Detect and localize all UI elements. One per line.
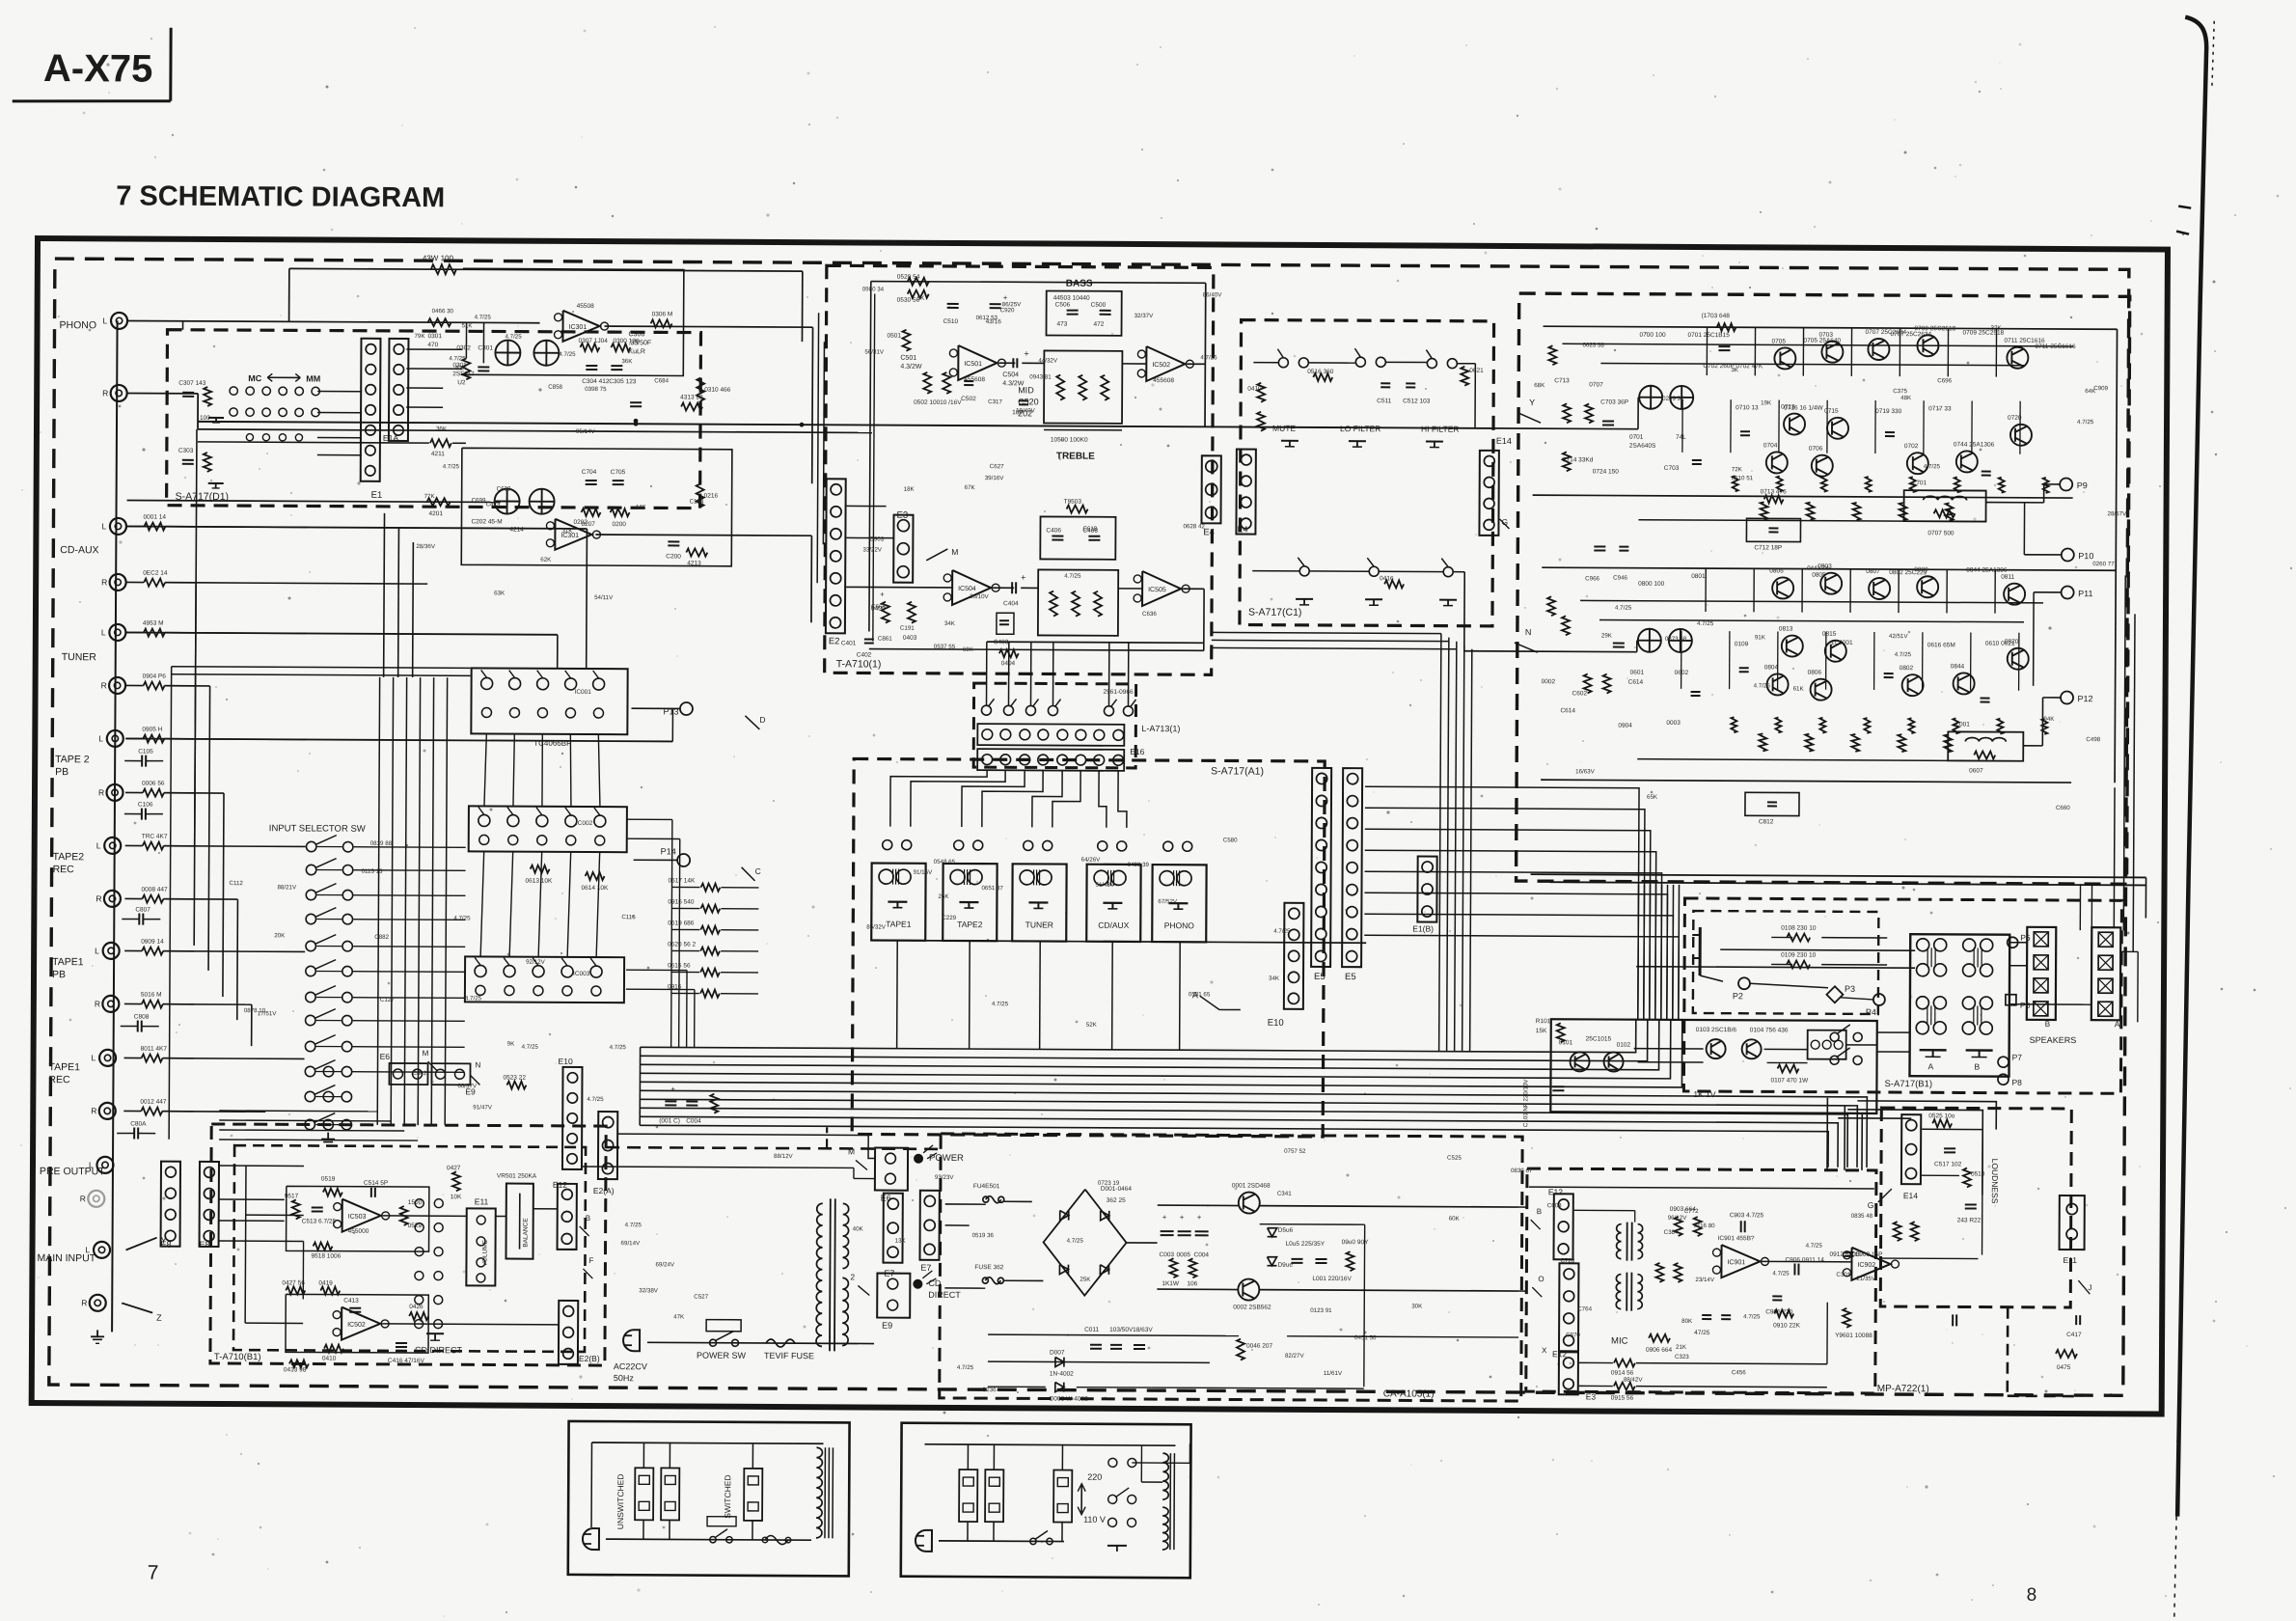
svg-text:C317: C317 xyxy=(988,398,1002,405)
svg-text:P7: P7 xyxy=(2012,1053,2023,1062)
svg-text:MIC: MIC xyxy=(1611,1336,1628,1347)
resistor R519 xyxy=(323,1189,342,1196)
svg-text:36K: 36K xyxy=(436,426,448,432)
resistor R517 xyxy=(292,1199,300,1219)
svg-text:0943 81: 0943 81 xyxy=(1029,373,1052,380)
AC box 1 xyxy=(568,1421,850,1577)
relay PHONO xyxy=(1152,865,1206,942)
svg-text:9K: 9K xyxy=(917,295,925,302)
selector contact columns xyxy=(306,841,315,851)
transistor 0704 xyxy=(1766,452,1788,473)
svg-text:L: L xyxy=(101,627,106,637)
svg-text:E1(B): E1(B) xyxy=(1412,923,1434,933)
svg-text:0702: 0702 xyxy=(1904,443,1919,450)
capacitor C308 xyxy=(182,459,194,461)
capacitor C513 xyxy=(312,1206,323,1208)
AC box1 switch xyxy=(710,1536,716,1542)
svg-text:2SA640S: 2SA640S xyxy=(1629,443,1656,450)
svg-text:0426: 0426 xyxy=(409,1304,424,1310)
svg-text:31K: 31K xyxy=(561,528,573,535)
jack TAPE1 PB L xyxy=(103,943,120,959)
svg-text:TUNER: TUNER xyxy=(62,651,97,663)
svg-text:C384: C384 xyxy=(1664,1229,1679,1236)
resistor R529 xyxy=(400,1206,408,1225)
svg-text:4.7/25: 4.7/25 xyxy=(522,1044,539,1051)
connector E4 tone side xyxy=(1201,455,1220,523)
svg-text:0910 22K: 0910 22K xyxy=(1773,1322,1801,1329)
capacitor C504 xyxy=(1012,358,1014,368)
relay bottom bus xyxy=(871,941,1366,944)
svg-text:E10: E10 xyxy=(559,1057,573,1066)
svg-text:S-A717(B1): S-A717(B1) xyxy=(1884,1079,1932,1089)
transistor Q101 xyxy=(1571,1052,1590,1071)
jack PRE OUTPUT R xyxy=(88,1191,104,1207)
svg-text:0628 42: 0628 42 xyxy=(1183,523,1205,530)
svg-text:25K: 25K xyxy=(1080,1277,1091,1283)
capacitor C511b xyxy=(1380,382,1390,384)
svg-text:R: R xyxy=(102,388,108,398)
svg-text:9518 1006: 9518 1006 xyxy=(311,1252,341,1259)
transistor Q104 xyxy=(1742,1039,1762,1058)
svg-text:C858: C858 xyxy=(548,384,562,391)
svg-text:0403: 0403 xyxy=(903,635,917,642)
svg-text:0416: 0416 xyxy=(1380,575,1394,582)
svg-text:S-A717(C1): S-A717(C1) xyxy=(1248,607,1302,618)
svg-text:C580: C580 xyxy=(1223,837,1238,843)
transistor 0811 xyxy=(2004,584,2025,605)
svg-text:7 SCHEMATIC DIAGRAM: 7 SCHEMATIC DIAGRAM xyxy=(116,180,445,213)
svg-text:63K: 63K xyxy=(455,365,467,371)
svg-text:0610 51: 0610 51 xyxy=(1732,475,1754,481)
terminal P3 xyxy=(1826,986,1843,1003)
svg-text:E1: E1 xyxy=(371,490,383,501)
resistor R502 R503 xyxy=(923,372,931,394)
connector E3 xyxy=(893,515,913,583)
jack TAPE2 REC L xyxy=(104,838,121,854)
resistor R520 xyxy=(908,278,929,286)
svg-text:0744 25A1306: 0744 25A1306 xyxy=(1954,441,1995,448)
svg-text:IC003: IC003 xyxy=(573,971,590,977)
svg-text:96/12V: 96/12V xyxy=(1668,1215,1688,1222)
left vertical bundle xyxy=(377,677,379,1125)
svg-text:9K: 9K xyxy=(507,1041,515,1048)
svg-text:0719 330: 0719 330 xyxy=(1875,408,1902,415)
svg-text:4.7/25: 4.7/25 xyxy=(1772,1270,1790,1277)
wires into volume box xyxy=(219,1110,377,1113)
resistor R501 xyxy=(902,330,910,351)
connector E14 filter xyxy=(1479,451,1498,536)
zener D006 xyxy=(1267,1257,1276,1266)
svg-text:4.7/25: 4.7/25 xyxy=(992,1001,1009,1007)
svg-text:E10: E10 xyxy=(1268,1018,1284,1029)
bridge rectifier xyxy=(1043,1189,1127,1295)
connector E1(B) xyxy=(1417,856,1436,921)
svg-text:68K: 68K xyxy=(1534,382,1545,389)
resistor TP503 xyxy=(1067,506,1088,513)
capacitor C512 xyxy=(1406,382,1415,384)
connector E5 right xyxy=(1342,768,1362,967)
resistor R400 xyxy=(882,602,889,623)
filter switch symbols xyxy=(1281,440,1298,442)
svg-text:0451 50: 0451 50 xyxy=(1354,1334,1377,1341)
svg-text:A: A xyxy=(1928,1061,1934,1071)
svg-text:0466 30: 0466 30 xyxy=(432,308,454,315)
transistor 0715 xyxy=(1827,418,1848,439)
svg-text:95/14V: 95/14V xyxy=(576,428,596,435)
box2 outlet 2 xyxy=(985,1470,1003,1522)
wires protection to relaybox xyxy=(1877,1031,1910,1033)
svg-text:C870: C870 xyxy=(1566,1332,1580,1338)
switch Z xyxy=(122,1303,152,1312)
resistor R310 xyxy=(697,378,704,401)
svg-text:IC502: IC502 xyxy=(1152,362,1170,369)
svg-text:0501: 0501 xyxy=(887,333,901,340)
terminal P13 xyxy=(680,702,693,715)
svg-text:IC902: IC902 xyxy=(1857,1262,1875,1269)
T symbols phono box xyxy=(208,417,224,419)
svg-text:C908 15P: C908 15P xyxy=(1855,1251,1883,1258)
svg-text:32/37V: 32/37V xyxy=(1134,313,1155,319)
transistor 0702 xyxy=(1907,453,1928,474)
svg-text:0525 10o: 0525 10o xyxy=(1928,1113,1955,1119)
svg-text:0612 53: 0612 53 xyxy=(976,315,998,321)
svg-text:4.7/25: 4.7/25 xyxy=(475,314,492,320)
svg-text:PB: PB xyxy=(52,969,66,980)
svg-text:E3: E3 xyxy=(896,510,908,521)
svg-text:79K: 79K xyxy=(414,333,425,340)
svg-text:FUSE 362: FUSE 362 xyxy=(974,1264,1003,1271)
dashed box T-A710(B1) outer xyxy=(210,1124,606,1365)
svg-text:C473: C473 xyxy=(486,501,501,508)
svg-text:0905 H: 0905 H xyxy=(142,727,162,733)
transistor 0813 xyxy=(1782,635,1803,656)
resistor R427 xyxy=(286,1286,305,1294)
svg-text:11/61V: 11/61V xyxy=(1324,1370,1343,1377)
svg-text:C966: C966 xyxy=(1585,575,1599,582)
power amp extra rails xyxy=(1562,343,2073,346)
svg-text:E4: E4 xyxy=(1237,525,1247,535)
long bus wire upper xyxy=(198,422,1492,428)
svg-text:IC301: IC301 xyxy=(569,324,588,331)
dashed segment volume to CA box xyxy=(606,1147,941,1149)
svg-text:0001 14: 0001 14 xyxy=(143,514,166,521)
svg-text:33/22V: 33/22V xyxy=(862,546,883,553)
svg-text:8011 4K7: 8011 4K7 xyxy=(141,1046,168,1053)
svg-text:P11: P11 xyxy=(2078,589,2092,598)
capacitor C309 xyxy=(630,401,642,403)
svg-text:43W 100: 43W 100 xyxy=(423,254,454,262)
svg-text:E2(A): E2(A) xyxy=(593,1186,615,1195)
svg-text:C906 0911 14: C906 0911 14 xyxy=(1785,1256,1824,1263)
dashed box S-A717(B1) xyxy=(1683,898,2121,1093)
svg-text:0757 52: 0757 52 xyxy=(1284,1148,1306,1155)
svg-text:E6: E6 xyxy=(881,1194,891,1203)
svg-text:4211: 4211 xyxy=(431,451,445,457)
transistor 0844 xyxy=(1954,673,1975,694)
op-amp IC301 xyxy=(562,311,599,342)
power extra verticals xyxy=(1681,399,1683,453)
resistor R613 xyxy=(531,865,550,873)
svg-text:0706: 0706 xyxy=(1809,446,1823,453)
svg-text:0839 67: 0839 67 xyxy=(1511,1168,1533,1174)
svg-text:0537 55: 0537 55 xyxy=(934,644,956,650)
svg-text:C004: C004 xyxy=(686,1118,701,1125)
svg-text:0104 756 436: 0104 756 436 xyxy=(1750,1027,1789,1033)
wire phono to tone xyxy=(698,326,813,329)
svg-text:0307 1J04: 0307 1J04 xyxy=(578,338,608,344)
svg-text:C003: C003 xyxy=(1159,1251,1174,1258)
transistor Q102 xyxy=(1604,1053,1624,1072)
wire phono R jack stub xyxy=(127,392,198,394)
svg-text:TRC 4K7: TRC 4K7 xyxy=(142,834,168,840)
svg-text:92/12V: 92/12V xyxy=(526,959,546,966)
outlet switched xyxy=(744,1469,762,1521)
phono lower wiring box xyxy=(461,448,732,565)
resistor R317 xyxy=(204,387,211,406)
svg-text:DIRECT: DIRECT xyxy=(928,1290,961,1300)
transistor 0805 xyxy=(1772,577,1793,598)
svg-text:R: R xyxy=(91,1106,96,1115)
svg-text:A: A xyxy=(2115,1019,2120,1029)
filter capacitors xyxy=(1161,1230,1174,1232)
treble network box xyxy=(1038,569,1118,635)
supply small caps xyxy=(1090,1344,1102,1346)
svg-text:P14: P14 xyxy=(661,846,676,856)
svg-text:E8: E8 xyxy=(161,1240,172,1250)
svg-text:R: R xyxy=(95,999,100,1008)
svg-text:09u0 90Y: 09u0 90Y xyxy=(1342,1239,1370,1246)
AC box1 bottom wire xyxy=(606,1539,811,1540)
svg-text:C510: C510 xyxy=(943,318,959,325)
resistor R614 xyxy=(586,872,605,880)
svg-text:C191: C191 xyxy=(900,625,915,632)
svg-text:MP-A722(1): MP-A722(1) xyxy=(1877,1384,1929,1394)
connector E2(B) xyxy=(559,1301,578,1364)
resistor R906 xyxy=(1649,1334,1670,1342)
connector E6 power xyxy=(875,1148,908,1191)
svg-text:B: B xyxy=(2045,1020,2050,1029)
svg-text:52K: 52K xyxy=(1086,1022,1098,1029)
svg-text:P8: P8 xyxy=(2011,1078,2022,1087)
svg-text:U2: U2 xyxy=(457,379,466,386)
left bundle horizontals xyxy=(172,667,471,669)
svg-text:E11: E11 xyxy=(2063,1255,2077,1265)
svg-text:106: 106 xyxy=(1187,1280,1197,1287)
svg-text:X: X xyxy=(1542,1346,1547,1355)
AC box 2 xyxy=(901,1423,1191,1579)
svg-text:C705: C705 xyxy=(611,469,626,476)
power rail lower top xyxy=(1542,567,2116,570)
capacitor C413 xyxy=(349,1307,361,1309)
svg-text:9517: 9517 xyxy=(285,1193,299,1199)
svg-text:4.7/25: 4.7/25 xyxy=(1615,605,1632,612)
svg-text:64/26V: 64/26V xyxy=(1081,857,1102,864)
supply extra wires xyxy=(1260,1223,1365,1226)
svg-text:C127: C127 xyxy=(380,997,395,1003)
svg-text:B: B xyxy=(1975,1062,1981,1072)
svg-text:PHONO: PHONO xyxy=(60,319,97,331)
capacitor C503 xyxy=(1019,399,1028,401)
svg-text:1K1W: 1K1W xyxy=(1162,1280,1180,1287)
svg-text:0602: 0602 xyxy=(1675,670,1689,676)
svg-text:C184: C184 xyxy=(690,499,704,506)
E5 wire fan xyxy=(1364,786,1639,1019)
svg-text:E7: E7 xyxy=(920,1263,931,1273)
svg-text:243 R22: 243 R22 xyxy=(1957,1217,1982,1223)
svg-text:0801: 0801 xyxy=(1691,573,1706,580)
svg-text:C903: C903 xyxy=(869,536,884,543)
inductor L701 xyxy=(1904,490,1986,521)
wire tone top rail xyxy=(871,282,1206,284)
svg-text:F: F xyxy=(588,1256,593,1265)
svg-text:0200: 0200 xyxy=(612,521,626,528)
svg-text:0873 58: 0873 58 xyxy=(1665,636,1687,643)
svg-text:P5: P5 xyxy=(2020,933,2031,943)
svg-text:0475: 0475 xyxy=(2057,1364,2071,1371)
box2 outlet 1 xyxy=(959,1470,977,1522)
svg-text:44K: 44K xyxy=(636,504,647,510)
svg-text:C703: C703 xyxy=(1664,465,1680,472)
svg-text:455000: 455000 xyxy=(348,1228,369,1235)
svg-text:36K: 36K xyxy=(621,358,633,365)
svg-text:2: 2 xyxy=(850,1272,855,1281)
volume switch contacts xyxy=(415,1199,424,1208)
connector E2(A) xyxy=(598,1112,617,1179)
svg-text:0806: 0806 xyxy=(1808,670,1822,676)
mic bus wires xyxy=(1529,1187,1874,1189)
supply out wires xyxy=(1127,1242,1158,1244)
svg-text:Y: Y xyxy=(1529,398,1535,407)
svg-text:R: R xyxy=(96,893,101,903)
voltage arrow xyxy=(1080,1486,1082,1513)
svg-text:0707 500: 0707 500 xyxy=(1927,530,1954,536)
svg-text:E9: E9 xyxy=(882,1321,892,1331)
loudness wires xyxy=(1922,1128,1982,1130)
svg-text:0804: 0804 xyxy=(1764,664,1779,671)
svg-text:C704: C704 xyxy=(582,469,597,476)
svg-text:P4: P4 xyxy=(1866,1007,1876,1017)
transistor 0803 xyxy=(1820,573,1842,594)
svg-text:455608: 455608 xyxy=(964,376,985,383)
svg-text:0700 100: 0700 100 xyxy=(1639,332,1666,339)
svg-text:0116 80: 0116 80 xyxy=(1694,1223,1716,1229)
svg-text:R101: R101 xyxy=(1536,1018,1551,1025)
capacitor C712 xyxy=(1746,518,1800,541)
svg-text:15K: 15K xyxy=(1536,1028,1547,1034)
power rail top xyxy=(1544,326,2118,329)
switch Y xyxy=(126,1237,157,1250)
riser bundle to power box xyxy=(1637,885,1640,1020)
terminal P7 xyxy=(1998,1057,2009,1067)
svg-text:32/38V: 32/38V xyxy=(639,1287,659,1294)
svg-text:0710 13: 0710 13 xyxy=(1736,404,1759,411)
outlet unswitched 1 xyxy=(635,1468,653,1520)
svg-text:C627: C627 xyxy=(990,463,1004,470)
svg-text:0805: 0805 xyxy=(1769,567,1784,574)
svg-text:LO FILTER: LO FILTER xyxy=(1340,424,1380,433)
svg-text:88/21V: 88/21V xyxy=(277,884,297,891)
svg-text:4.7/25: 4.7/25 xyxy=(505,334,522,341)
selector lower group xyxy=(323,1066,333,1076)
svg-text:4313 98: 4313 98 xyxy=(680,394,703,400)
transistor 0706 xyxy=(1812,455,1833,477)
svg-text:0723 19: 0723 19 xyxy=(1098,1180,1120,1187)
transistor 0709 xyxy=(1917,335,1938,356)
wires L inputs to IC001 xyxy=(126,526,587,528)
svg-text:TAPE 2: TAPE 2 xyxy=(55,754,90,765)
svg-text:26/10V: 26/10V xyxy=(970,593,990,600)
svg-text:E16: E16 xyxy=(1130,747,1144,756)
svg-text:48K: 48K xyxy=(1900,395,1912,401)
svg-text:TAPE2: TAPE2 xyxy=(957,920,983,929)
svg-text:C842: C842 xyxy=(412,1070,426,1077)
svg-text:82/27V: 82/27V xyxy=(1285,1353,1305,1360)
power emitter resistors upper xyxy=(1733,476,1738,491)
svg-text:P9: P9 xyxy=(2077,481,2088,490)
resistor ladder 0617-0616 xyxy=(700,884,720,892)
svg-text:60/57V: 60/57V xyxy=(457,1083,478,1089)
svg-text:77K: 77K xyxy=(424,493,436,500)
svg-text:23/14V: 23/14V xyxy=(1695,1277,1715,1283)
svg-text:362 25: 362 25 xyxy=(1107,1197,1126,1204)
jack TAPE 2 PB R xyxy=(106,784,123,801)
outer dashed border xyxy=(49,259,2129,1395)
FET Q303 xyxy=(495,340,520,365)
svg-text:45508: 45508 xyxy=(577,303,594,310)
svg-text:C618: C618 xyxy=(1082,526,1097,533)
box2 switch xyxy=(1030,1538,1036,1544)
transistor 0807 xyxy=(1869,578,1890,599)
IC boxes vertical wires xyxy=(484,733,486,806)
svg-text:C229: C229 xyxy=(942,915,956,921)
protection box xyxy=(1550,1019,1876,1113)
resistor R416 xyxy=(1384,580,1404,588)
power right rail xyxy=(2115,329,2117,783)
svg-text:C660: C660 xyxy=(2056,805,2070,811)
svg-text:C602: C602 xyxy=(1572,690,1588,697)
long bus wire lower xyxy=(198,429,872,433)
svg-text:E5: E5 xyxy=(1314,972,1326,982)
svg-text:C101 NF 220/10V: C101 NF 220/10V xyxy=(1522,1079,1529,1127)
connector E11 loudness xyxy=(2060,1195,2085,1250)
svg-text:+: + xyxy=(1024,348,1028,358)
svg-text:0906 664: 0906 664 xyxy=(1646,1347,1673,1354)
terminal P4 xyxy=(1873,994,1885,1005)
wire treble xyxy=(993,587,1014,589)
svg-text:C115: C115 xyxy=(621,914,636,920)
svg-text:C807: C807 xyxy=(135,907,150,914)
IC001 switch box xyxy=(471,668,627,734)
svg-text:P3: P3 xyxy=(1845,984,1855,994)
volume feedback box xyxy=(287,1186,429,1251)
svg-text:BALANCE: BALANCE xyxy=(523,1218,530,1248)
AC box1 fuse xyxy=(765,1535,788,1544)
svg-text:0713 476: 0713 476 xyxy=(1761,488,1788,495)
svg-text:L: L xyxy=(103,316,108,325)
svg-text:4201: 4201 xyxy=(429,510,444,517)
svg-text:0001 2SD468: 0001 2SD468 xyxy=(1232,1182,1271,1189)
capacitor C416 xyxy=(396,1342,407,1344)
svg-text:C764: C764 xyxy=(1577,1305,1592,1312)
headphone jack xyxy=(1699,927,1702,975)
svg-text:IC501: IC501 xyxy=(964,361,982,368)
svg-text:62K: 62K xyxy=(540,557,552,563)
svg-text:0715: 0715 xyxy=(1824,408,1839,415)
svg-text:R: R xyxy=(101,680,107,690)
wire IC301 output xyxy=(605,325,698,328)
power emitter resistors lower xyxy=(1731,717,1736,732)
connector E8 right xyxy=(200,1162,219,1247)
